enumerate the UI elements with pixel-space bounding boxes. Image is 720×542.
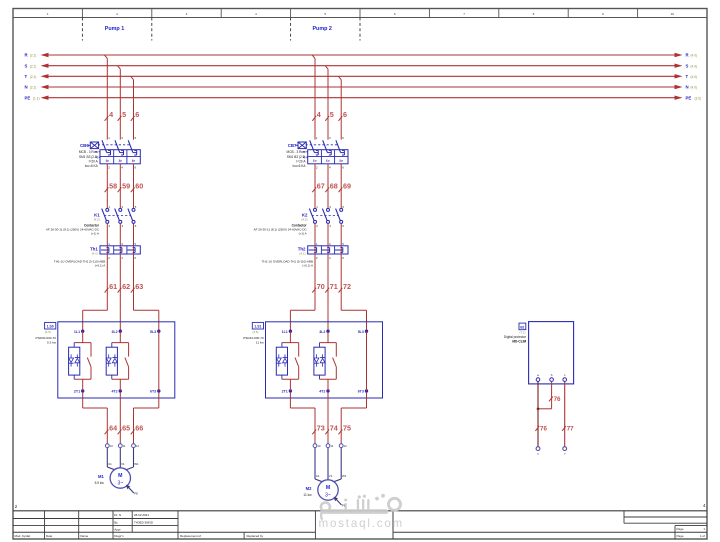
svg-text:(2.1): (2.1) bbox=[30, 86, 37, 90]
svg-text:Appr: Appr bbox=[114, 527, 120, 531]
svg-text:5.5 kw: 5.5 kw bbox=[47, 340, 57, 344]
svg-text:MCB - 3 Row: MCB - 3 Row bbox=[287, 150, 307, 154]
svg-text:Replaced by: Replaced by bbox=[247, 534, 264, 538]
wire segments soft starter to motor M2, numbers 73-75 bbox=[290, 393, 366, 444]
svg-text:74: 74 bbox=[330, 424, 338, 433]
svg-text:3~: 3~ bbox=[117, 480, 123, 486]
motor leads U1 V1 W1 to M2 bbox=[315, 448, 347, 482]
svg-text:M: M bbox=[326, 485, 330, 491]
svg-text:(2.1): (2.1) bbox=[30, 54, 37, 58]
svg-text:69: 69 bbox=[343, 182, 351, 191]
svg-text:6: 6 bbox=[135, 110, 139, 119]
svg-text:72: 72 bbox=[343, 282, 351, 291]
svg-text:CB7: CB7 bbox=[288, 143, 297, 148]
wire numbers 4 5 6 (M2 feeder) bbox=[312, 110, 347, 121]
svg-text:10: 10 bbox=[671, 12, 675, 16]
svg-text:4T2: 4T2 bbox=[319, 390, 325, 394]
svg-text:(+1) A: (+1) A bbox=[91, 232, 99, 236]
soft starter 1.S0 (PSR30-600-70) bbox=[36, 322, 175, 398]
svg-text:PSR44-600-70: PSR44-600-70 bbox=[243, 336, 264, 340]
svg-text:mostaql.com: mostaql.com bbox=[319, 517, 405, 530]
circuit breaker CB7 (MCB 3 pole) bbox=[287, 136, 348, 170]
svg-text:4: 4 bbox=[255, 12, 257, 16]
svg-text:Name: Name bbox=[80, 534, 88, 538]
power rail T bbox=[25, 74, 698, 79]
svg-text:M: M bbox=[118, 473, 122, 479]
motor leads U1 V1 W1 to M1 bbox=[107, 448, 139, 470]
wire tap phase 1 CB7 bbox=[312, 55, 315, 140]
svg-text:V1: V1 bbox=[329, 474, 333, 478]
svg-text:Icu=6 KA: Icu=6 KA bbox=[292, 164, 306, 168]
svg-text:T: T bbox=[686, 74, 689, 79]
terminal strip for motor M1 bbox=[105, 444, 139, 448]
contactor K1 (3 pole NO contacts) bbox=[46, 205, 137, 236]
svg-text:9: 9 bbox=[602, 12, 604, 16]
svg-text:1L1: 1L1 bbox=[74, 330, 80, 334]
svg-text:5: 5 bbox=[122, 110, 126, 119]
svg-text:(7.1): (7.1) bbox=[520, 331, 526, 335]
svg-text:S: S bbox=[686, 63, 689, 68]
svg-text:8: 8 bbox=[533, 12, 535, 16]
svg-text:SM1 B3 (2.9): SM1 B3 (2.9) bbox=[287, 155, 306, 159]
svg-text:76: 76 bbox=[554, 396, 561, 403]
power rail R bbox=[25, 53, 698, 58]
digital protector B1 bbox=[504, 322, 574, 384]
svg-text:Replacement of: Replacement of bbox=[180, 534, 201, 538]
wire segments Th2 to soft starter, numbers 70-72 bbox=[290, 254, 366, 331]
svg-text:4: 4 bbox=[317, 110, 321, 119]
wire tap phase 3 CB7 bbox=[338, 76, 341, 139]
wire segments CB6 to K1 , numbers 58-60 bbox=[105, 164, 144, 209]
sheet continuation markers bbox=[15, 503, 706, 509]
svg-text:6T3: 6T3 bbox=[150, 390, 156, 394]
power rail S bbox=[25, 63, 698, 68]
svg-text:7: 7 bbox=[463, 12, 465, 16]
svg-text:I=20 A: I=20 A bbox=[296, 159, 306, 163]
title block bbox=[13, 511, 707, 539]
svg-text:Page: Page bbox=[677, 534, 684, 538]
svg-text:64: 64 bbox=[109, 424, 117, 433]
svg-text:SM1 B3 (2.9): SM1 B3 (2.9) bbox=[79, 155, 98, 159]
svg-text:(1.1): (1.1) bbox=[33, 96, 40, 100]
svg-text:PE: PE bbox=[134, 492, 138, 496]
svg-text:1.S1: 1.S1 bbox=[254, 325, 261, 329]
svg-text:MCB - 3 Row: MCB - 3 Row bbox=[79, 150, 99, 154]
svg-text:I=20 A: I=20 A bbox=[89, 159, 99, 163]
svg-text:3L2: 3L2 bbox=[319, 330, 325, 334]
svg-text:67: 67 bbox=[317, 182, 325, 191]
svg-text:3~: 3~ bbox=[325, 492, 331, 498]
svg-text:28.02.2021: 28.02.2021 bbox=[134, 513, 149, 517]
svg-text:(4.5): (4.5) bbox=[45, 330, 51, 334]
wire segments Th1 to soft starter, numbers 61-63 bbox=[83, 254, 159, 331]
svg-text:77: 77 bbox=[567, 426, 574, 433]
svg-text:(+1) A: (+1) A bbox=[299, 232, 307, 236]
contactor K2 (3 pole NO contacts) bbox=[254, 205, 345, 236]
svg-text:Pump 1: Pump 1 bbox=[105, 26, 124, 32]
svg-text:(2.1): (2.1) bbox=[30, 64, 37, 68]
wire 77 (protector c) bbox=[562, 381, 574, 446]
svg-text:11 kw: 11 kw bbox=[256, 340, 265, 344]
svg-text:By: By bbox=[114, 520, 118, 524]
motor M1 (5.5 kw) bbox=[95, 468, 131, 488]
wire segments K2 to Th2 bbox=[315, 223, 341, 246]
svg-text:PSR30-600-70: PSR30-600-70 bbox=[36, 336, 57, 340]
svg-text:PE: PE bbox=[25, 95, 31, 100]
svg-text:Dr. N: Dr. N bbox=[114, 513, 121, 517]
column grid strip bbox=[13, 9, 707, 18]
svg-text:75: 75 bbox=[343, 424, 351, 433]
motor M2 (11 kw) bbox=[303, 480, 338, 500]
svg-text:W1: W1 bbox=[342, 474, 347, 478]
soft starter 1.S1 (PSR44-600-70) bbox=[243, 322, 382, 398]
svg-text:65: 65 bbox=[122, 424, 130, 433]
svg-text:2: 2 bbox=[116, 12, 118, 16]
svg-text:B1: B1 bbox=[520, 325, 524, 329]
PE arrow at motor M2 bbox=[334, 497, 346, 508]
svg-text:T: T bbox=[25, 74, 28, 79]
svg-text:6: 6 bbox=[343, 110, 347, 119]
svg-text:MD-CLIM: MD-CLIM bbox=[512, 340, 526, 344]
svg-text:59: 59 bbox=[122, 182, 130, 191]
wire segments CB7 to K2 , numbers 67-69 bbox=[312, 164, 351, 209]
svg-text:(4.1): (4.1) bbox=[299, 251, 305, 255]
protector bottom terminals bbox=[536, 447, 567, 456]
section divider dashes pump1 bbox=[82, 18, 151, 41]
svg-text:5.5 kw: 5.5 kw bbox=[95, 481, 105, 485]
svg-text:60: 60 bbox=[135, 182, 143, 191]
svg-text:Pump 2: Pump 2 bbox=[312, 26, 331, 32]
svg-text:Diagr'n: Diagr'n bbox=[114, 534, 124, 538]
svg-text:Icu=6 KA: Icu=6 KA bbox=[85, 164, 99, 168]
wire tap phase 1 CB6 bbox=[105, 55, 108, 140]
svg-text:5L3: 5L3 bbox=[150, 330, 156, 334]
svg-text:58: 58 bbox=[109, 182, 117, 191]
watermark mostaql.com bbox=[319, 494, 405, 530]
svg-text:68: 68 bbox=[330, 182, 338, 191]
svg-text:(+5.1) A: (+5.1) A bbox=[302, 263, 313, 267]
svg-text:U1: U1 bbox=[108, 462, 112, 466]
svg-text:63: 63 bbox=[135, 282, 143, 291]
svg-text:N: N bbox=[686, 85, 689, 90]
svg-text:66: 66 bbox=[135, 424, 143, 433]
PE arrow at motor M1 bbox=[126, 485, 138, 496]
svg-text:N: N bbox=[25, 85, 28, 90]
power rail PE bbox=[25, 95, 702, 100]
svg-text:5L3: 5L3 bbox=[358, 330, 364, 334]
svg-text:2T1: 2T1 bbox=[74, 390, 80, 394]
svg-text:2T1: 2T1 bbox=[282, 390, 288, 394]
svg-text:(4.5): (4.5) bbox=[253, 330, 259, 334]
terminal strip for motor M2 bbox=[313, 444, 347, 448]
wire tap phase 2 CB6 bbox=[118, 66, 121, 140]
svg-text:1L1: 1L1 bbox=[282, 330, 288, 334]
wire tap phase 2 CB7 bbox=[325, 66, 328, 140]
svg-text:M2: M2 bbox=[306, 486, 312, 491]
svg-text:(4.0): (4.0) bbox=[691, 75, 698, 79]
svg-text:1 of: 1 of bbox=[700, 534, 705, 538]
svg-text:(4.1): (4.1) bbox=[92, 251, 98, 255]
svg-text:(4.0): (4.0) bbox=[691, 54, 698, 58]
svg-text:70: 70 bbox=[317, 282, 325, 291]
svg-text:TH3ED EM3D: TH3ED EM3D bbox=[134, 520, 154, 524]
svg-text:(2.1): (2.1) bbox=[30, 75, 37, 79]
svg-text:Date: Date bbox=[46, 534, 53, 538]
svg-text:(4.0): (4.0) bbox=[691, 64, 698, 68]
wire numbers 4 5 6 (M1 feeder) bbox=[105, 110, 140, 121]
svg-text:(4.2): (4.2) bbox=[301, 217, 307, 221]
circuit breaker CB6 (MCB 3 pole) bbox=[79, 136, 140, 170]
power rail N bbox=[25, 85, 698, 90]
svg-text:5: 5 bbox=[324, 12, 326, 16]
wire 76 (protector a/b) bbox=[535, 381, 561, 446]
thermal overload relay Th2 bbox=[262, 242, 348, 268]
svg-text:71: 71 bbox=[330, 282, 338, 291]
svg-text:1.S0: 1.S0 bbox=[47, 325, 54, 329]
svg-text:(4.0): (4.0) bbox=[691, 86, 698, 90]
wire segments soft starter to motor M1, numbers 64-66 bbox=[83, 393, 159, 444]
svg-text:73: 73 bbox=[317, 424, 325, 433]
svg-text:S: S bbox=[25, 63, 28, 68]
wire segments K1 to Th1 bbox=[107, 223, 133, 246]
svg-text:4T2: 4T2 bbox=[111, 390, 117, 394]
svg-text:6: 6 bbox=[394, 12, 396, 16]
svg-text:61: 61 bbox=[109, 282, 117, 291]
svg-text:W1: W1 bbox=[134, 462, 139, 466]
svg-text:M1: M1 bbox=[98, 474, 104, 479]
svg-text:4: 4 bbox=[109, 110, 113, 119]
svg-text:Mod. by/dat: Mod. by/dat bbox=[15, 534, 31, 538]
svg-text:11 kw: 11 kw bbox=[303, 493, 312, 497]
svg-text:Digital protector: Digital protector bbox=[504, 335, 527, 339]
svg-text:V1: V1 bbox=[121, 462, 125, 466]
svg-text:PE: PE bbox=[686, 95, 692, 100]
svg-text:(4.2): (4.2) bbox=[94, 217, 100, 221]
svg-text:3L2: 3L2 bbox=[111, 330, 117, 334]
svg-text:3: 3 bbox=[186, 12, 188, 16]
svg-text:5: 5 bbox=[330, 110, 334, 119]
svg-text:62: 62 bbox=[122, 282, 130, 291]
svg-text:CB6: CB6 bbox=[80, 143, 89, 148]
svg-text:Page: Page bbox=[677, 527, 684, 531]
section label Pump 1 bbox=[105, 26, 124, 32]
thermal overload relay Th1 bbox=[54, 242, 140, 268]
svg-text:U1: U1 bbox=[316, 474, 320, 478]
svg-text:(3.0): (3.0) bbox=[695, 96, 702, 100]
section divider dashes pump2 bbox=[291, 18, 360, 41]
wire tap phase 3 CB6 bbox=[131, 76, 134, 139]
svg-text:6T3: 6T3 bbox=[358, 390, 364, 394]
svg-text:76: 76 bbox=[540, 426, 547, 433]
section label Pump 2 bbox=[312, 26, 331, 32]
svg-text:(+5.1) A: (+5.1) A bbox=[95, 263, 106, 267]
svg-text:1: 1 bbox=[47, 12, 49, 16]
